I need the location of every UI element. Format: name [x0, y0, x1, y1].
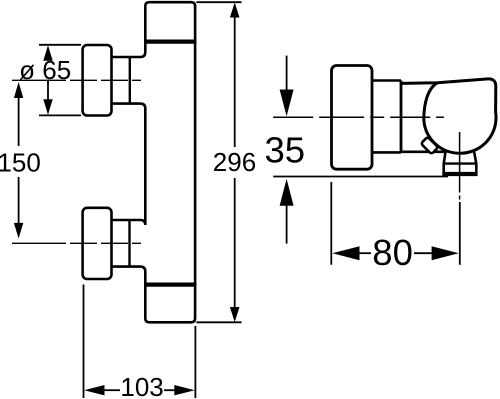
dim296 line upper: [234, 16, 236, 147]
dim35 arrow up shaft: [286, 205, 288, 244]
side view: outlet stack left edge: [444, 150, 446, 173]
dim103 shaft right: [164, 389, 174, 391]
dim296 arrow down: [230, 307, 240, 322]
left view: bottom knob: [83, 208, 112, 279]
dim35 arrow up: [280, 179, 294, 206]
dim35 bottom line: [273, 176, 448, 178]
side view: outlet stack right edge: [474, 150, 477, 173]
dim103 extension left: [83, 285, 85, 399]
dim103 shaft left: [105, 389, 121, 391]
side view: neck bottom line: [372, 151, 401, 154]
svg-text:296: 296: [213, 147, 256, 177]
dim35 arrow down shaft: [286, 56, 288, 91]
dim80 shaft left: [360, 252, 372, 254]
side view: outlet stack divider: [444, 162, 477, 164]
dim80 extension right: [459, 202, 461, 265]
side view: knob: [332, 66, 373, 170]
dim65 arrow up: [43, 45, 52, 61]
dim296 extension top: [196, 1, 241, 3]
svg-text:35: 35: [264, 130, 305, 171]
svg-text:ø 65: ø 65: [19, 55, 71, 85]
left view: top escutcheon plate edge: [129, 57, 131, 104]
side view: flange divider: [400, 81, 403, 153]
left view: bottom cap thick line: [144, 283, 196, 287]
side view: lever tab: [421, 137, 438, 154]
dim80 arrow right: [432, 246, 459, 260]
svg-text:150: 150: [0, 147, 41, 177]
dim103 extension right: [194, 326, 196, 398]
dim65 arrow down: [43, 99, 52, 115]
dim296 extension bottom: [196, 321, 241, 323]
dim80 extension left: [330, 182, 332, 265]
left view: top knob: [83, 45, 112, 116]
svg-text:80: 80: [372, 232, 413, 273]
dim150 line upper: [18, 97, 20, 146]
side view: horizontal centerline: [273, 116, 444, 118]
side view: outlet axis line: [459, 132, 461, 200]
svg-text:103: 103: [120, 372, 163, 399]
dim65 extension bottom: [39, 114, 81, 116]
dim296 arrow up: [230, 2, 240, 17]
dim103 arrow right: [174, 385, 195, 395]
left view: bottom escutcheon plate edge: [128, 220, 130, 267]
centerline top knob: [12, 79, 141, 81]
side view: body egg outline: [401, 79, 496, 153]
dim150 line lower: [18, 177, 20, 224]
dim296 line lower: [234, 178, 236, 308]
dim80 shaft right: [414, 252, 432, 254]
centerline bottom knob: [12, 242, 141, 244]
left view: top cap thick line: [144, 39, 196, 43]
dim150 arrow down: [14, 223, 23, 239]
dim80 arrow left: [332, 246, 359, 260]
dim65 extension top: [39, 44, 81, 46]
dim35 arrow down: [280, 90, 294, 117]
left view: valve body outline: [111, 2, 195, 322]
dim150 arrow up: [14, 82, 23, 98]
dim65 shaft: [47, 81, 49, 100]
side view: section bottom line: [401, 151, 446, 154]
side view: outlet stack bottom bar: [442, 172, 477, 176]
side view: neck top line: [372, 79, 401, 82]
dim103 arrow left: [84, 385, 105, 395]
